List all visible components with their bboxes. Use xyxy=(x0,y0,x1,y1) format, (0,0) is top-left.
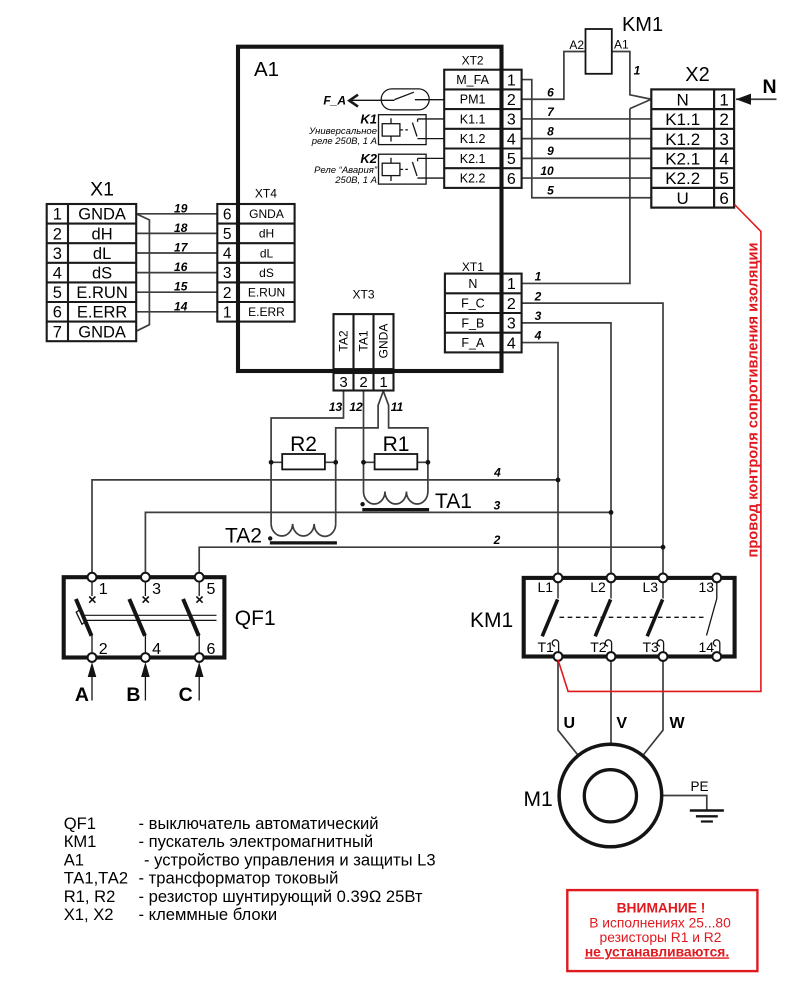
svg-text:TA2: TA2 xyxy=(337,330,351,351)
svg-text:GNDA: GNDA xyxy=(78,323,126,341)
svg-text:W: W xyxy=(670,715,686,732)
svg-text:5: 5 xyxy=(547,184,554,198)
svg-text:3: 3 xyxy=(507,316,516,333)
svg-text:5: 5 xyxy=(507,151,516,168)
svg-text:X2: X2 xyxy=(685,64,709,86)
svg-text:5: 5 xyxy=(719,169,728,188)
svg-text:4: 4 xyxy=(507,131,516,148)
svg-text:1: 1 xyxy=(719,90,728,109)
svg-text:QF1: QF1 xyxy=(235,607,276,630)
svg-text:13: 13 xyxy=(329,400,343,414)
svg-text:3: 3 xyxy=(152,581,161,598)
svg-text:18: 18 xyxy=(174,221,188,235)
svg-text:4: 4 xyxy=(534,329,542,343)
svg-text:В исполнениях 25...80: В исполнениях 25...80 xyxy=(589,916,731,931)
svg-text:6: 6 xyxy=(719,189,728,208)
svg-text:- резистор шунтирующий 0.39Ω 2: - резистор шунтирующий 0.39Ω 25Вт xyxy=(139,887,423,906)
svg-text:3: 3 xyxy=(507,112,516,129)
svg-text:4: 4 xyxy=(53,265,62,283)
svg-text:T3: T3 xyxy=(643,639,660,655)
svg-text:U: U xyxy=(564,715,576,732)
svg-text:QF1: QF1 xyxy=(64,814,96,833)
svg-text:A1: A1 xyxy=(254,58,279,81)
svg-text:TA2: TA2 xyxy=(225,525,262,548)
svg-text:C: C xyxy=(179,684,193,706)
svg-text:GNDA: GNDA xyxy=(78,206,126,224)
svg-text:L2: L2 xyxy=(590,579,606,595)
svg-text:КМ1: КМ1 xyxy=(64,832,97,851)
svg-text:2: 2 xyxy=(507,296,516,313)
svg-text:ВНИМАНИЕ !: ВНИМАНИЕ ! xyxy=(617,901,706,916)
svg-text:4: 4 xyxy=(493,466,501,480)
svg-text:16: 16 xyxy=(174,260,188,274)
svg-text:A1: A1 xyxy=(614,38,629,52)
svg-text:N: N xyxy=(762,76,776,98)
svg-text:K1: K1 xyxy=(360,112,377,127)
svg-text:TA1: TA1 xyxy=(435,490,472,513)
svg-text:GNDA: GNDA xyxy=(377,324,391,359)
svg-text:Х1, Х2: Х1, Х2 xyxy=(64,905,114,924)
svg-text:15: 15 xyxy=(174,280,188,294)
svg-text:PE: PE xyxy=(691,779,709,794)
svg-text:2: 2 xyxy=(359,374,367,391)
svg-text:4: 4 xyxy=(719,150,728,169)
svg-text:6: 6 xyxy=(207,641,216,658)
svg-text:E.RUN: E.RUN xyxy=(76,284,127,302)
svg-text:- выключатель автоматический: - выключатель автоматический xyxy=(139,814,379,833)
svg-text:9: 9 xyxy=(547,144,554,158)
svg-text:T1: T1 xyxy=(538,639,555,655)
svg-text:6: 6 xyxy=(223,206,232,223)
svg-text:6: 6 xyxy=(547,86,554,100)
svg-text:K1.2: K1.2 xyxy=(665,130,700,149)
svg-text:14: 14 xyxy=(699,639,715,655)
svg-text:dL: dL xyxy=(93,245,111,263)
svg-text:2: 2 xyxy=(493,533,501,547)
svg-text:реле 250В, 1 А: реле 250В, 1 А xyxy=(311,136,377,147)
svg-text:K2.2: K2.2 xyxy=(665,169,700,188)
svg-text:4: 4 xyxy=(507,335,516,352)
svg-text:провод контроля сопротивления: провод контроля сопротивления изоляции xyxy=(745,243,762,558)
svg-text:250В, 1 А: 250В, 1 А xyxy=(334,175,377,186)
svg-text:3: 3 xyxy=(535,309,542,323)
svg-text:- трансформатор токовый: - трансформатор токовый xyxy=(139,869,339,888)
svg-text:1: 1 xyxy=(507,72,516,89)
svg-text:13: 13 xyxy=(699,579,715,595)
svg-text:3: 3 xyxy=(494,499,501,513)
svg-text:T2: T2 xyxy=(590,639,607,655)
svg-text:M_FA: M_FA xyxy=(456,73,489,87)
svg-text:10: 10 xyxy=(540,164,554,178)
svg-text:1: 1 xyxy=(507,276,516,293)
svg-text:dS: dS xyxy=(92,265,112,283)
svg-text:3: 3 xyxy=(339,374,347,391)
svg-text:R1, R2: R1, R2 xyxy=(64,887,116,906)
svg-text:F_A: F_A xyxy=(323,94,346,108)
svg-text:dH: dH xyxy=(259,227,274,241)
svg-text:19: 19 xyxy=(174,201,188,215)
svg-text:ТА1,ТА2: ТА1,ТА2 xyxy=(64,869,128,888)
svg-text:2: 2 xyxy=(223,285,232,302)
svg-text:3: 3 xyxy=(719,130,728,149)
svg-text:N: N xyxy=(468,277,477,291)
svg-text:KM1: KM1 xyxy=(622,14,663,36)
svg-text:не устанавливаются.: не устанавливаются. xyxy=(585,944,729,959)
svg-text:6: 6 xyxy=(507,171,516,188)
svg-text:1: 1 xyxy=(379,374,387,391)
svg-text:L1: L1 xyxy=(538,579,554,595)
svg-text:XT3: XT3 xyxy=(352,288,374,302)
svg-text:R1: R1 xyxy=(383,433,410,456)
svg-text:A: A xyxy=(75,684,89,706)
svg-text:11: 11 xyxy=(391,400,404,414)
svg-text:M1: M1 xyxy=(524,788,553,811)
svg-text:U: U xyxy=(677,189,689,208)
svg-text:2: 2 xyxy=(53,225,62,243)
svg-text:5: 5 xyxy=(53,284,62,302)
svg-text:XT1: XT1 xyxy=(462,260,484,274)
svg-text:F_A: F_A xyxy=(461,336,485,350)
svg-text:dS: dS xyxy=(259,266,274,280)
svg-text:F_B: F_B xyxy=(461,316,484,330)
svg-text:4: 4 xyxy=(223,246,232,263)
svg-text:- устройство управления и защи: - устройство управления и защиты L3 xyxy=(144,850,436,869)
svg-text:5: 5 xyxy=(207,581,216,598)
svg-text:14: 14 xyxy=(174,299,188,313)
svg-text:5: 5 xyxy=(223,226,232,243)
svg-text:1: 1 xyxy=(634,64,641,78)
svg-text:1: 1 xyxy=(99,581,108,598)
svg-text:3: 3 xyxy=(53,245,62,263)
svg-text:KM1: KM1 xyxy=(470,609,513,632)
svg-text:K1.1: K1.1 xyxy=(460,112,486,126)
svg-text:TA1: TA1 xyxy=(357,330,371,351)
svg-text:- пускатель электромагнитный: - пускатель электромагнитный xyxy=(139,832,374,851)
svg-text:2: 2 xyxy=(99,641,108,658)
svg-text:1: 1 xyxy=(535,270,542,284)
svg-text:K2: K2 xyxy=(360,151,377,166)
svg-text:PM1: PM1 xyxy=(460,93,486,107)
svg-text:7: 7 xyxy=(547,105,555,119)
svg-text:A2: A2 xyxy=(569,38,584,52)
svg-text:1: 1 xyxy=(223,304,232,321)
svg-text:6: 6 xyxy=(53,304,62,322)
svg-text:1: 1 xyxy=(53,206,62,224)
svg-text:dL: dL xyxy=(260,246,274,260)
svg-text:E.RUN: E.RUN xyxy=(248,286,285,300)
svg-text:K2.1: K2.1 xyxy=(460,152,486,166)
svg-text:- клеммные блоки: - клеммные блоки xyxy=(139,905,278,924)
svg-text:K2.2: K2.2 xyxy=(460,172,486,186)
svg-text:K1.1: K1.1 xyxy=(665,110,700,129)
svg-text:R2: R2 xyxy=(290,433,317,456)
svg-text:XT2: XT2 xyxy=(462,54,484,68)
svg-text:2: 2 xyxy=(534,289,542,303)
svg-text:2: 2 xyxy=(507,92,516,109)
svg-text:K2.1: K2.1 xyxy=(665,150,700,169)
svg-text:3: 3 xyxy=(223,265,232,282)
svg-text:X1: X1 xyxy=(90,179,114,201)
svg-text:12: 12 xyxy=(349,400,363,414)
svg-text:dH: dH xyxy=(92,225,113,243)
svg-text:резисторы R1 и R2: резисторы R1 и R2 xyxy=(600,930,722,945)
svg-text:L3: L3 xyxy=(643,579,659,595)
svg-text:А1: А1 xyxy=(64,850,84,869)
svg-text:8: 8 xyxy=(547,125,554,139)
svg-text:K1.2: K1.2 xyxy=(460,132,486,146)
svg-text:B: B xyxy=(126,684,140,706)
svg-text:N: N xyxy=(677,90,689,109)
svg-text:V: V xyxy=(616,715,627,732)
svg-text:GNDA: GNDA xyxy=(249,207,284,221)
svg-text:17: 17 xyxy=(174,241,189,255)
svg-text:F_C: F_C xyxy=(461,297,485,311)
svg-text:7: 7 xyxy=(53,323,62,341)
svg-text:E.ERR: E.ERR xyxy=(248,305,285,319)
svg-text:4: 4 xyxy=(152,641,161,658)
svg-text:XT4: XT4 xyxy=(255,187,277,201)
svg-text:E.ERR: E.ERR xyxy=(77,304,128,322)
svg-text:2: 2 xyxy=(719,110,728,129)
